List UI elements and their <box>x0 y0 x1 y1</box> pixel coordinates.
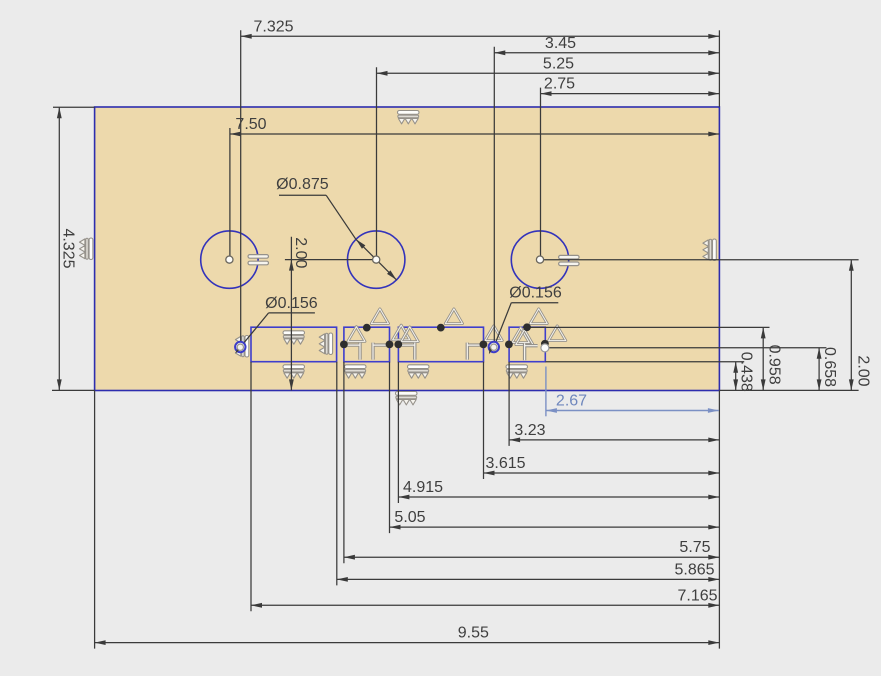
hole H2 centre point <box>491 344 497 350</box>
svg-text:3.23: 3.23 <box>514 422 545 439</box>
centre point C2 <box>373 256 380 263</box>
extension line 4.325 bottom <box>52 389 95 391</box>
extension line right edge top <box>718 30 720 107</box>
perpendicular glyph R3 left <box>402 343 415 360</box>
svg-text:5.25: 5.25 <box>543 55 574 72</box>
dimension 0.438 <box>733 352 754 392</box>
comb glyph below R2 left <box>345 365 367 378</box>
extension line 0.438 <box>545 361 744 363</box>
cutout rectangle R3 <box>398 327 483 362</box>
dimension 3.23 <box>509 422 719 442</box>
svg-text:5.865: 5.865 <box>674 561 714 578</box>
dimension 2.00 right <box>849 260 872 391</box>
triangle glyph above R3 <box>445 309 462 324</box>
triangle glyph above R2 <box>371 309 388 324</box>
perpendicular glyph R2 left <box>347 343 360 360</box>
part plate outline <box>95 107 720 391</box>
svg-text:Ø0.156: Ø0.156 <box>265 295 318 312</box>
extension line C2 center to 2.00 <box>285 259 376 261</box>
svg-text:0.958: 0.958 <box>765 345 782 385</box>
extension line bottom right <box>720 389 859 391</box>
extension line 5.75 <box>343 362 345 564</box>
perpendicular glyph R3 right <box>467 343 480 360</box>
svg-text:Ø0.156: Ø0.156 <box>509 285 562 302</box>
triangle glyph R2/R3 b <box>401 327 418 342</box>
hole H2 Ø0.156 <box>489 342 499 352</box>
hole circle C3 Ø0.875 <box>511 231 568 288</box>
dimension 0.658 <box>817 347 838 390</box>
extension line right edge bottom <box>718 391 720 649</box>
sketch point P1 <box>363 324 371 332</box>
extension line 7.325 to H1 <box>240 30 242 347</box>
hole leader arrowhead H1 <box>234 346 242 354</box>
comb glyph below bottom edge <box>396 392 418 405</box>
hole leader Ø0.156 right (H2) <box>493 285 562 351</box>
extension line 3.23 <box>508 362 510 446</box>
equal constraint glyph at C3 <box>559 255 580 265</box>
dimension 3.615 <box>484 455 720 475</box>
comb glyph top edge <box>398 111 420 124</box>
triangle glyph above R4 <box>530 309 547 324</box>
svg-text:2.00: 2.00 <box>292 237 309 268</box>
triangle glyph R2/R3 a <box>393 325 410 340</box>
dimension 5.25 <box>377 55 720 75</box>
dimension 7.325 <box>241 19 720 39</box>
comb glyph below R1 <box>283 365 305 378</box>
triangle glyph right of R3 <box>485 326 502 341</box>
triangle glyph R4 left a <box>512 328 529 343</box>
extension line 0.658 <box>546 347 826 349</box>
sketch point P8 <box>505 341 513 349</box>
extension line 3.45 to H2 <box>493 47 495 347</box>
perpendicular glyph R2 right <box>373 343 386 360</box>
comb glyph inside R1 right <box>319 333 332 355</box>
dimension 3.45 <box>494 35 719 55</box>
svg-text:4.325: 4.325 <box>60 228 77 268</box>
extension line C3 center to 2.00 right <box>540 259 859 261</box>
comb glyph left edge <box>80 238 93 260</box>
dimension 0.958 <box>761 327 783 390</box>
hole H1 Ø0.156 <box>235 342 245 352</box>
dimension 2.75 <box>541 76 720 96</box>
comb glyph at hole H1 <box>235 336 248 358</box>
extension line 2.75 to C3 <box>540 88 542 260</box>
sketch point P4 <box>340 341 348 349</box>
hole leader Ø0.156 left (H1) <box>238 295 318 350</box>
extension line 7.165 <box>250 362 252 612</box>
cutout rectangle R2 <box>344 327 390 362</box>
extension line 9.55 left <box>94 391 96 649</box>
extension line 4.915 <box>397 362 399 503</box>
svg-text:0.658: 0.658 <box>821 347 838 387</box>
svg-text:Ø0.875: Ø0.875 <box>276 176 329 193</box>
sketch point P2 <box>437 324 445 332</box>
dimension 4.915 <box>398 479 719 499</box>
cutout rectangle R1 <box>251 327 337 362</box>
svg-text:0.438: 0.438 <box>737 352 754 392</box>
hole H1 centre point <box>237 344 243 350</box>
diameter dimension Ø0.875 at C2 <box>276 176 398 282</box>
dimension 5.75 <box>344 539 719 559</box>
sketch point P6 <box>394 341 402 349</box>
svg-text:3.615: 3.615 <box>485 455 525 472</box>
svg-text:9.55: 9.55 <box>458 625 489 642</box>
dimension 5.865 <box>337 561 720 581</box>
extension line 4.325 top <box>53 106 95 108</box>
svg-text:5.05: 5.05 <box>394 509 425 526</box>
dimension 5.05 <box>390 509 720 529</box>
comb glyph below R2/R3 <box>408 365 430 378</box>
equal constraint glyph at C1 <box>248 255 269 265</box>
dimension 7.165 <box>251 587 719 607</box>
svg-text:7.50: 7.50 <box>235 116 266 133</box>
extension line 7.50 to C1 <box>229 128 231 260</box>
svg-text:2.00: 2.00 <box>855 355 872 386</box>
sketch point P3 <box>523 323 531 331</box>
hole circle C2 Ø0.875 <box>348 231 405 288</box>
extension line 0.958 <box>528 326 769 328</box>
dimension 2.00 middle <box>289 237 309 391</box>
svg-text:7.165: 7.165 <box>677 587 717 604</box>
svg-text:2.67: 2.67 <box>556 393 587 410</box>
dimension 2.67 (blue) <box>546 367 719 417</box>
svg-text:4.915: 4.915 <box>403 479 443 496</box>
hole leader arrowhead H2 <box>487 347 494 356</box>
triangle glyph R2 left <box>348 327 365 342</box>
hole circle C1 Ø0.875 <box>201 231 258 288</box>
svg-text:5.75: 5.75 <box>679 539 710 556</box>
svg-text:3.45: 3.45 <box>545 35 576 52</box>
sketch point P9 <box>541 340 549 348</box>
triangle glyph right of R4 <box>549 326 566 341</box>
dimension 7.50 <box>230 116 719 136</box>
centre point C1 <box>226 256 233 263</box>
svg-text:7.325: 7.325 <box>253 19 293 36</box>
dimension 9.55 <box>95 625 720 645</box>
comb glyph right edge <box>703 239 716 261</box>
extension line 5.865 <box>336 362 338 586</box>
svg-text:2.75: 2.75 <box>544 76 575 93</box>
extension line 5.25 to C2 <box>376 67 378 259</box>
sketch point P5 <box>386 341 394 349</box>
extension line 5.05 <box>389 362 391 533</box>
perpendicular glyph R4 <box>525 343 538 360</box>
triangle glyph R4 left b <box>516 330 533 345</box>
extension line 3.615 <box>483 362 485 479</box>
sketch point P7 <box>480 341 488 349</box>
dimension 4.325 <box>57 107 77 390</box>
sketch point open (R4 right) <box>541 344 549 352</box>
comb glyph below R4 <box>506 365 528 378</box>
cutout rectangle R4 <box>509 327 545 362</box>
comb glyph inside R1 <box>283 331 305 344</box>
centre point C3 <box>536 256 543 263</box>
